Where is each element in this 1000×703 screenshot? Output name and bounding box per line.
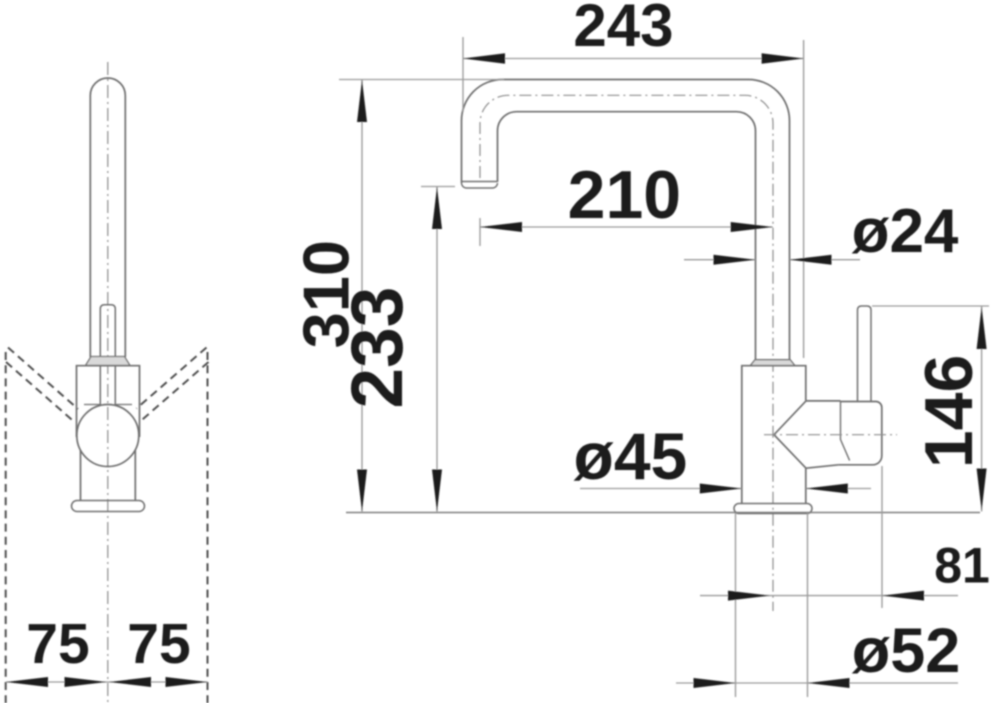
body side view — [742, 366, 806, 504]
svg-text:ø24: ø24 — [852, 197, 959, 266]
dim 243 — [463, 58, 804, 60]
dim o45 — [580, 488, 871, 490]
centerline front view — [107, 62, 109, 703]
body upper front view — [77, 366, 140, 437]
collar side view — [750, 360, 795, 366]
svg-text:75: 75 — [26, 612, 89, 676]
svg-text:146: 146 — [911, 355, 987, 468]
ball joint circle front view — [77, 405, 139, 467]
dim 146 — [981, 306, 983, 512]
shank extension line left (o52) — [735, 513, 737, 697]
svg-text:233: 233 — [337, 287, 418, 409]
svg-text:ø45: ø45 — [574, 419, 688, 493]
cone centerline dash-dot — [764, 434, 897, 436]
dim o52 — [676, 682, 958, 684]
U-spout outline — [462, 80, 790, 360]
body lower front view — [81, 451, 136, 501]
dim 81 — [700, 595, 958, 597]
handle block — [838, 402, 881, 465]
base flange front view — [72, 501, 145, 512]
collar front view — [86, 357, 131, 366]
dim o24 — [684, 259, 860, 261]
dim 233 — [436, 187, 438, 512]
swivel diagonal left upper — [8, 348, 78, 410]
swivel range dashed vertical left — [5, 352, 7, 703]
countertop line — [346, 512, 980, 514]
swivel diagonal left lower — [6, 362, 75, 423]
handle tip extension line (81) — [881, 466, 883, 608]
svg-text:243: 243 — [573, 0, 673, 59]
svg-text:ø52: ø52 — [852, 616, 961, 686]
handle rod front view — [100, 305, 115, 405]
base flange side view — [734, 504, 812, 514]
handle inner diagonal — [841, 402, 850, 461]
dimension line 75-75 — [6, 681, 208, 683]
svg-text:75: 75 — [127, 612, 190, 676]
swivel range dashed vertical right — [207, 352, 209, 703]
dim 210 — [480, 226, 773, 228]
valve cone — [774, 401, 841, 468]
spout tube front view — [90, 78, 125, 357]
lever rod side view — [858, 306, 872, 402]
swivel diagonal right upper — [137, 348, 207, 409]
spout centerline dash-dot — [480, 95, 773, 611]
spout outlet aerator — [462, 182, 498, 189]
svg-text:81: 81 — [934, 538, 990, 594]
shank extension line right (o52) — [807, 513, 809, 697]
shoulder lines front view — [84, 404, 132, 406]
dim 310 — [361, 80, 363, 512]
svg-text:210: 210 — [568, 157, 681, 233]
swivel diagonal right lower — [140, 362, 209, 422]
